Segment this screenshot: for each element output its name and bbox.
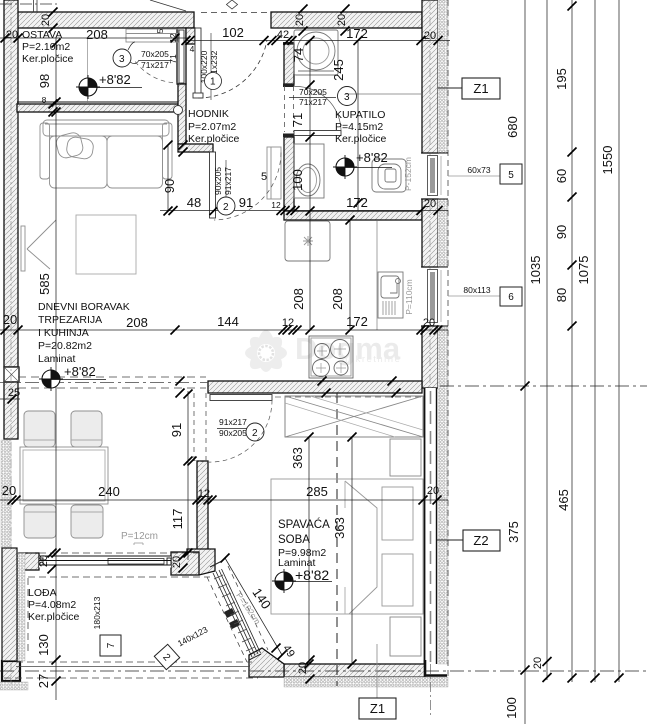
svg-text:HODNIK: HODNIK <box>188 108 229 120</box>
wall centerlines (dash-dot gray) <box>11 0 430 684</box>
bathroom door opening dashes <box>194 86 294 461</box>
LEVEL MARKERS <box>87 38 89 104</box>
svg-text:20: 20 <box>2 483 16 498</box>
dining table <box>20 447 108 504</box>
svg-text:195: 195 <box>554 68 569 90</box>
svg-text:1: 1 <box>210 77 216 88</box>
living/kitchen dim line <box>0 329 448 331</box>
bathroom/kitchen divider wall <box>284 211 422 220</box>
svg-text:4: 4 <box>190 44 195 54</box>
svg-text:LOĐA: LOĐA <box>28 587 57 599</box>
svg-text:48: 48 <box>187 195 201 210</box>
svg-text:12: 12 <box>282 317 294 329</box>
svg-text:12: 12 <box>168 33 178 43</box>
bottom-right wall corner <box>425 660 447 676</box>
entrance door leaf <box>195 28 201 97</box>
svg-text:90x205: 90x205 <box>219 428 247 438</box>
TEXTS : dimensions horizontal <box>2 25 439 500</box>
svg-text:20: 20 <box>6 29 18 41</box>
svg-text:102: 102 <box>222 25 244 40</box>
right exterior wall top <box>422 0 438 153</box>
svg-text:60x73: 60x73 <box>467 165 490 175</box>
bedroom dim line 285 <box>0 499 448 501</box>
svg-text:SOBA: SOBA <box>278 534 310 546</box>
left exterior wall upper <box>4 0 18 367</box>
svg-text:OSTAVA: OSTAVA <box>22 29 62 41</box>
svg-text:P=4.15m2: P=4.15m2 <box>335 121 383 133</box>
bedroom vertical dims 363 <box>308 437 310 664</box>
diagonal corner piece <box>249 648 284 677</box>
bathroom vertical dim line 245 <box>357 41 359 212</box>
entrance door arc <box>198 40 267 98</box>
svg-text:91: 91 <box>239 195 253 210</box>
bottom-left corner block <box>2 661 20 681</box>
top-left dim line <box>0 37 188 39</box>
bedroom door leaf <box>210 395 272 401</box>
window 60x73 bathroom east <box>421 153 448 199</box>
svg-text:P=110cm: P=110cm <box>404 279 414 315</box>
svg-text:91x217: 91x217 <box>223 167 233 195</box>
top wall left segment <box>9 12 194 28</box>
svg-text:20: 20 <box>38 555 50 567</box>
bathroom door leaf <box>294 131 341 136</box>
svg-text:Z1: Z1 <box>473 81 488 96</box>
loggia west wall hatched <box>2 548 17 661</box>
svg-text:5: 5 <box>155 28 165 33</box>
svg-text:+8'82: +8'82 <box>295 567 329 583</box>
svg-text:71: 71 <box>290 113 305 127</box>
svg-text:5: 5 <box>261 171 267 183</box>
svg-text:71: 71 <box>168 54 178 64</box>
svg-text:2: 2 <box>252 428 258 439</box>
main dash-dot reference line bottom <box>0 670 647 672</box>
left dim line 25 <box>0 398 20 400</box>
diagonal loggia glazing <box>207 561 268 662</box>
svg-text:P=12cm: P=12cm <box>121 531 158 542</box>
svg-text:245: 245 <box>331 59 346 81</box>
window left wall living (small) <box>3 381 5 383</box>
bedroom vertical dim 91/117 <box>187 391 189 560</box>
hodnik junction circle <box>174 106 183 115</box>
svg-text:91x217: 91x217 <box>219 417 247 427</box>
svg-text:208: 208 <box>291 288 306 310</box>
hodnik-living door arc <box>214 153 281 221</box>
stove <box>309 336 353 378</box>
kitchen sink <box>378 272 403 318</box>
hodnik cabinet <box>267 147 281 199</box>
svg-text:70x205: 70x205 <box>299 87 327 97</box>
ostava door within wall <box>177 28 186 84</box>
door tag texts <box>113 33 357 441</box>
svg-text:144: 144 <box>217 314 239 329</box>
entrance exterior marks <box>0 0 270 13</box>
svg-text:3: 3 <box>119 54 125 65</box>
svg-text:20: 20 <box>424 198 436 210</box>
svg-text:DNEVNI BORAVAK: DNEVNI BORAVAK <box>38 301 130 313</box>
TEXTS : dimensions rotated <box>36 14 414 688</box>
right side texts <box>106 68 615 719</box>
ostava vertical dim line <box>55 38 57 560</box>
svg-text:90x205: 90x205 <box>213 167 223 195</box>
left wall shaft box <box>4 367 19 382</box>
loggia vertical dim line lower <box>55 560 57 700</box>
svg-text:27: 27 <box>36 674 51 688</box>
svg-text:7: 7 <box>106 642 117 648</box>
box 2 diagonal <box>154 644 179 669</box>
hodnik south stub wall <box>178 144 213 152</box>
svg-text:Ker.pločice: Ker.pločice <box>335 133 387 145</box>
svg-text:3: 3 <box>344 92 350 103</box>
svg-text:208: 208 <box>330 288 345 310</box>
hodnik west wall <box>178 84 186 144</box>
svg-text:20: 20 <box>423 317 435 329</box>
bed <box>271 479 423 614</box>
svg-text:100: 100 <box>290 169 305 191</box>
svg-text:P-152cm: P-152cm <box>403 157 413 191</box>
svg-text:P=2.10m2: P=2.10m2 <box>22 41 70 53</box>
svg-text:98: 98 <box>37 74 52 88</box>
diagonal 140 dim line <box>225 558 282 655</box>
right exterior wall mid1 <box>422 199 438 267</box>
FURNITURE (thin gray) <box>20 29 423 656</box>
outer dashed facade line right <box>447 0 449 680</box>
svg-text:+8'82: +8'82 <box>99 72 131 87</box>
svg-text:285: 285 <box>306 484 328 499</box>
svg-text:Ker.pločice: Ker.pločice <box>188 133 240 145</box>
left exterior wall mid <box>4 382 18 439</box>
svg-text:117: 117 <box>170 509 185 530</box>
svg-text:74: 74 <box>291 48 306 62</box>
bathroom west wall lower <box>284 137 294 211</box>
svg-text:363: 363 <box>332 517 347 539</box>
ostava door arc <box>134 60 181 83</box>
leader Z1 bottom <box>376 644 378 698</box>
dimension ticks <box>1 5 443 686</box>
svg-text:100: 100 <box>504 697 519 719</box>
left wall shaft X <box>4 367 19 382</box>
loggia south window <box>39 556 171 568</box>
svg-text:70x205: 70x205 <box>141 49 169 59</box>
Z2 glazing band bedroom east <box>424 388 437 718</box>
svg-text:TRPEZARIJA: TRPEZARIJA <box>38 314 102 326</box>
svg-text:6: 6 <box>508 292 514 303</box>
TEXTS : room labels <box>22 29 388 623</box>
svg-text:20: 20 <box>532 657 544 669</box>
svg-text:20: 20 <box>424 30 436 42</box>
toilet <box>372 159 406 192</box>
top wall right segment <box>271 12 422 28</box>
window 80x113 kitchen east <box>421 267 448 326</box>
top-right dim line <box>186 40 450 42</box>
RIGHT SIDE DIMENSION CHAINS <box>525 0 619 724</box>
svg-text:20: 20 <box>3 312 17 327</box>
DIMENSION LINES <box>0 38 450 700</box>
svg-text:71x217: 71x217 <box>299 97 327 107</box>
svg-text:5: 5 <box>508 170 514 181</box>
svg-text:172: 172 <box>346 26 368 41</box>
main dash-dot reference line mid right <box>440 385 647 387</box>
svg-text:I KUHINJA: I KUHINJA <box>38 327 89 339</box>
bedroom section dashed vertical <box>336 393 338 686</box>
kitchen vertical dim lines 208 <box>309 211 311 330</box>
svg-text:208: 208 <box>86 27 108 42</box>
insulation right wall <box>0 0 448 690</box>
svg-text:SPAVAĆA: SPAVAĆA <box>278 518 330 531</box>
sofa <box>40 120 172 188</box>
tv <box>21 226 25 271</box>
wardrobe front dashed <box>275 396 421 398</box>
svg-text:20: 20 <box>171 556 183 568</box>
svg-text:80: 80 <box>554 288 569 302</box>
svg-text:60: 60 <box>554 169 569 183</box>
nightstands <box>390 439 421 476</box>
svg-text:80x113: 80x113 <box>463 285 491 295</box>
bedroom south wall <box>284 664 425 677</box>
ostava door leaf <box>179 30 184 83</box>
bedroom door arc <box>194 400 272 462</box>
chairs <box>24 411 55 447</box>
svg-text:12: 12 <box>198 488 210 500</box>
svg-text:Ker.pločice: Ker.pločice <box>22 53 74 65</box>
svg-text:1075: 1075 <box>576 256 591 285</box>
watermark flower <box>245 330 402 374</box>
svg-text:+8'82: +8'82 <box>64 364 96 379</box>
svg-text:2: 2 <box>223 202 229 213</box>
leader Z2 <box>437 539 463 541</box>
loggia dashed overhang lines <box>17 552 199 554</box>
svg-text:25: 25 <box>8 387 20 399</box>
loggia corner piece <box>187 549 215 575</box>
svg-text:8: 8 <box>42 95 47 105</box>
right exterior wall mid2 <box>422 326 438 388</box>
loggia sill west block <box>19 553 39 570</box>
svg-text:1550: 1550 <box>600 146 615 175</box>
leader window 6 <box>448 295 500 297</box>
bathroom door arc <box>295 86 341 130</box>
pillows <box>382 487 413 540</box>
hodnik-living door leaf <box>210 152 216 218</box>
svg-text:90: 90 <box>162 179 177 193</box>
svg-text:240: 240 <box>98 484 120 499</box>
WALLS <box>2 0 438 681</box>
svg-text:20: 20 <box>336 14 348 26</box>
bathroom wall caps <box>283 84 295 88</box>
svg-text:363: 363 <box>290 447 305 469</box>
svg-text:P=4.08m2: P=4.08m2 <box>28 599 76 611</box>
ostava shelf <box>126 29 178 42</box>
svg-text:12: 12 <box>271 200 281 210</box>
leader Z1 top <box>100 78 522 719</box>
washing machine <box>294 30 338 75</box>
svg-text:P=2.07m2: P=2.07m2 <box>188 121 236 133</box>
svg-text:Z2: Z2 <box>473 533 488 548</box>
loggia sill east block <box>171 552 199 575</box>
svg-text:KUPATILO: KUPATILO <box>335 109 385 121</box>
hodnik+bath bottom dim line <box>160 210 448 212</box>
bathroom vanity + sink <box>294 144 324 198</box>
svg-text:20: 20 <box>297 662 309 674</box>
leader window 5 <box>448 175 500 177</box>
svg-text:585: 585 <box>37 273 52 295</box>
bedroom north wall <box>208 381 422 393</box>
living rug <box>76 215 136 274</box>
svg-text:20: 20 <box>40 14 52 26</box>
svg-text:Z1: Z1 <box>370 701 385 716</box>
svg-text:680: 680 <box>505 116 520 138</box>
svg-text:172: 172 <box>346 195 368 210</box>
box 7 loggia <box>100 635 121 656</box>
svg-text:Ker.pločice: Ker.pločice <box>28 611 80 623</box>
wardrobe with X <box>285 396 423 437</box>
bedroom west stub wall <box>197 461 208 553</box>
svg-text:172: 172 <box>346 314 368 329</box>
svg-text:180x213: 180x213 <box>92 596 102 629</box>
kitchen fridge <box>285 221 330 261</box>
svg-text:130: 130 <box>36 634 51 656</box>
loggia bottom open edge <box>4 662 258 678</box>
svg-text:465: 465 <box>556 489 571 511</box>
svg-text:20: 20 <box>294 14 306 26</box>
svg-text:20: 20 <box>427 485 439 497</box>
bathroom west wall upper piece <box>284 44 294 84</box>
svg-text:71x217: 71x217 <box>141 60 169 70</box>
svg-text:1035: 1035 <box>528 256 543 285</box>
svg-text:208: 208 <box>126 315 148 330</box>
shower line <box>346 93 421 95</box>
svg-text:375: 375 <box>506 521 521 543</box>
svg-text:+8'82: +8'82 <box>356 150 388 165</box>
svg-text:P=20.82m2: P=20.82m2 <box>38 340 92 352</box>
living room section dashed lines <box>0 377 208 388</box>
svg-text:42: 42 <box>277 29 289 41</box>
kitchen counter <box>376 221 378 330</box>
bathroom vertical dim line 74/71/100 <box>309 41 311 212</box>
ostava/living divider wall <box>17 101 178 103</box>
hodnik vertical dim line <box>167 145 169 211</box>
svg-text:91: 91 <box>169 423 184 437</box>
svg-text:90: 90 <box>554 225 569 239</box>
